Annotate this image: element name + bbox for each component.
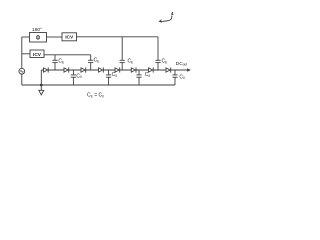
svg-text:ICV: ICV	[65, 35, 74, 41]
svg-text:CE: CE	[94, 58, 100, 64]
svg-text:CE: CE	[128, 59, 134, 65]
svg-text:C0: C0	[112, 72, 118, 78]
svg-text:CE: CE	[58, 59, 64, 65]
svg-text:DCout: DCout	[176, 61, 187, 67]
svg-text:C0: C0	[76, 73, 82, 79]
svg-text:4: 4	[171, 11, 174, 16]
svg-text:ICV: ICV	[33, 52, 42, 58]
svg-text:180°: 180°	[32, 27, 42, 33]
svg-text:C0: C0	[145, 72, 151, 78]
svg-text:CE: CE	[162, 59, 168, 65]
svg-text:C0: C0	[179, 74, 185, 80]
svg-text:CE = C0: CE = C0	[87, 93, 104, 99]
